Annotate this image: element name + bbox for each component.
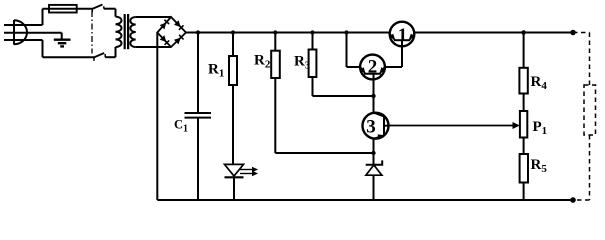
svg-text:2: 2 xyxy=(368,57,378,78)
svg-text:1: 1 xyxy=(398,25,408,46)
svg-text:3: 3 xyxy=(366,117,376,138)
